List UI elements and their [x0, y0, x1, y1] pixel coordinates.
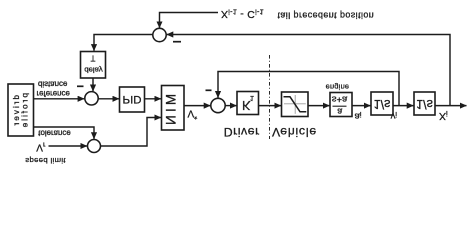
- svg-text:reference: reference: [37, 89, 71, 98]
- svg-text:1/s: 1/s: [374, 97, 391, 111]
- svg-text:1/s: 1/s: [416, 97, 433, 111]
- svg-text:delay: delay: [84, 65, 103, 74]
- svg-text:tolerance: tolerance: [38, 128, 71, 137]
- svg-text:Driver: Driver: [224, 125, 260, 139]
- svg-text:distance: distance: [38, 80, 68, 89]
- svg-text:T: T: [91, 53, 96, 62]
- svg-text:ai: ai: [355, 110, 362, 122]
- svg-text:MIN: MIN: [164, 94, 179, 128]
- svg-text:Vehicle: Vehicle: [272, 125, 317, 139]
- svg-text:s+a: s+a: [332, 94, 348, 105]
- svg-text:speed limit: speed limit: [25, 156, 66, 165]
- svg-text:profile: profile: [20, 93, 29, 129]
- svg-text:a: a: [337, 107, 342, 117]
- svg-text:engine: engine: [326, 82, 350, 91]
- svg-text:vi: vi: [391, 110, 398, 122]
- svg-text:tail precedent position: tail precedent position: [278, 10, 375, 20]
- svg-text:PID: PID: [123, 93, 142, 105]
